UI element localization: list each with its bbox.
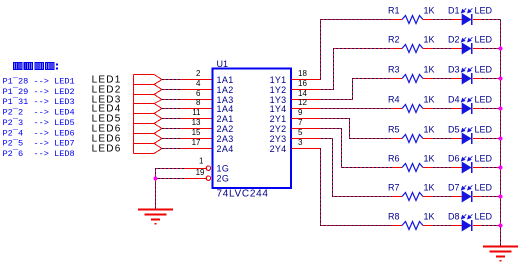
- LED D1: [448, 6, 493, 26]
- wire D3 cathode to bus: [482, 78, 501, 80]
- svg-text:1G: 1G: [217, 164, 230, 174]
- svg-text:U1: U1: [217, 59, 229, 69]
- svg-text:1K: 1K: [424, 212, 435, 222]
- wire port6 to U1: [162, 128, 182, 130]
- svg-text:D4: D4: [448, 95, 460, 105]
- resistor R6 1K: [388, 154, 435, 172]
- wire port8 to U1: [162, 148, 182, 150]
- svg-text:P2¯2 --> LED4: P2¯2 --> LED4: [3, 107, 75, 118]
- wire R5 to D5: [433, 138, 452, 140]
- refdes U1: [217, 59, 229, 69]
- svg-text:LED: LED: [475, 95, 493, 105]
- note title (CJK glyph blobs): [14, 62, 55, 69]
- net labels LED1..LED8: [92, 75, 122, 155]
- svg-text:1K: 1K: [424, 35, 435, 45]
- wire U1 1Y2 to R2: [321, 49, 392, 90]
- pin number 19: [196, 168, 205, 177]
- pin number 1: [199, 157, 204, 166]
- svg-text:1K: 1K: [424, 65, 435, 75]
- wire 1G to ground node: [156, 169, 185, 179]
- svg-text:D5: D5: [448, 125, 460, 135]
- U1 left pins 2,4,6,8,11,13,15,17: [182, 80, 213, 149]
- svg-text:1Y4: 1Y4: [270, 104, 287, 114]
- svg-text:D6: D6: [448, 154, 460, 164]
- svg-text:R2: R2: [388, 35, 400, 45]
- svg-text:18: 18: [298, 69, 307, 78]
- svg-text:1: 1: [199, 157, 204, 166]
- ground (U1 enables): [138, 210, 173, 224]
- svg-text:R5: R5: [388, 125, 400, 135]
- svg-text:P1¯31 --> LED3: P1¯31 --> LED3: [3, 96, 75, 107]
- wire R1 to D1: [433, 19, 452, 21]
- svg-text:2A1: 2A1: [217, 114, 234, 124]
- wire down to ground: [155, 179, 157, 210]
- wire D8 cathode to bus: [482, 225, 501, 227]
- svg-text:16: 16: [298, 79, 307, 88]
- LED D3: [448, 65, 493, 85]
- U1 pin 19 (2G) stub with bubble: [184, 176, 211, 180]
- U1 pin 1 (1G) stub with bubble: [184, 166, 211, 170]
- svg-text:LED: LED: [475, 125, 493, 135]
- wire D6 cathode to bus: [482, 167, 501, 169]
- wire port3 to U1: [162, 99, 182, 101]
- svg-text:1A1: 1A1: [217, 75, 234, 85]
- svg-text:7: 7: [298, 118, 303, 127]
- svg-text:R6: R6: [388, 154, 400, 164]
- svg-text:D2: D2: [448, 35, 460, 45]
- svg-text:1K: 1K: [424, 6, 435, 16]
- svg-text:1K: 1K: [424, 95, 435, 105]
- svg-text:15: 15: [192, 128, 201, 137]
- svg-text:LED: LED: [475, 212, 493, 222]
- svg-text:1A2: 1A2: [217, 85, 234, 95]
- svg-text:R8: R8: [388, 212, 400, 222]
- svg-text:P2¯3 --> LED5: P2¯3 --> LED5: [3, 117, 75, 128]
- svg-text:2A3: 2A3: [217, 134, 234, 144]
- svg-text:R3: R3: [388, 65, 400, 75]
- LED D2: [448, 35, 493, 55]
- wire R3 to D3: [433, 78, 452, 80]
- svg-text:5: 5: [298, 128, 303, 137]
- wire port4 to U1: [162, 108, 182, 110]
- svg-text:1K: 1K: [424, 154, 435, 164]
- svg-text:19: 19: [196, 168, 205, 177]
- wire port5 to U1: [162, 118, 182, 120]
- wire R4 to D4: [433, 108, 452, 110]
- svg-text:3: 3: [298, 138, 303, 147]
- resistor R3 1K: [388, 65, 435, 83]
- svg-text:R7: R7: [388, 183, 400, 193]
- wire U1 2Y3 to R7: [321, 139, 392, 197]
- svg-text:14: 14: [298, 89, 307, 98]
- wire port7 to U1: [162, 138, 182, 140]
- LED D7: [448, 183, 493, 203]
- svg-text:LED: LED: [475, 154, 493, 164]
- resistor R4 1K: [388, 95, 435, 113]
- svg-text:11: 11: [192, 108, 201, 117]
- svg-text:2: 2: [196, 69, 201, 78]
- resistor R8 1K: [388, 212, 435, 230]
- LED D4: [448, 95, 493, 115]
- svg-text:D1: D1: [448, 6, 460, 16]
- svg-text:8: 8: [196, 98, 201, 107]
- svg-text:LED6: LED6: [92, 144, 122, 155]
- wire R6 to D6: [433, 167, 452, 169]
- svg-text:P1¯28 --> LED1: P1¯28 --> LED1: [3, 76, 75, 87]
- wire R8 to D8: [433, 225, 452, 227]
- svg-text:R4: R4: [388, 95, 400, 105]
- wire 2G to ground node: [156, 178, 185, 180]
- svg-text:1Y2: 1Y2: [270, 85, 287, 95]
- svg-text:LED: LED: [475, 35, 493, 45]
- svg-text:4: 4: [196, 79, 201, 88]
- wire LED return bus: [500, 20, 502, 247]
- bus junctions: [498, 46, 502, 227]
- svg-text:R1: R1: [388, 6, 400, 16]
- svg-text:P2¯6 --> LED8: P2¯6 --> LED8: [3, 148, 75, 159]
- resistor R2 1K: [388, 35, 435, 53]
- wire port2 to U1: [162, 89, 182, 91]
- svg-text:P2¯5 --> LED7: P2¯5 --> LED7: [3, 138, 75, 149]
- U1 right pin numbers: [298, 69, 307, 147]
- svg-text:1K: 1K: [424, 125, 435, 135]
- svg-text:D8: D8: [448, 212, 460, 222]
- LED D5: [448, 125, 493, 145]
- svg-text:17: 17: [192, 138, 201, 147]
- note list P1_28..P2_6: [3, 76, 75, 159]
- part value 74LVC244: [217, 189, 269, 200]
- resistor R5 1K: [388, 125, 435, 143]
- wire U1 2Y4 to R8: [321, 149, 393, 226]
- U1 pin names: [217, 75, 287, 184]
- ground (LED return): [483, 247, 518, 261]
- wire R7 to D7: [433, 196, 452, 198]
- svg-text:D7: D7: [448, 183, 460, 193]
- svg-text:1Y1: 1Y1: [270, 75, 287, 85]
- wire D7 cathode to bus: [482, 196, 501, 198]
- svg-text:1K: 1K: [424, 183, 435, 193]
- svg-text:1A4: 1A4: [217, 104, 234, 114]
- wire D5 cathode to bus: [482, 138, 501, 140]
- svg-text:13: 13: [192, 118, 201, 127]
- wire port1 to U1: [162, 79, 182, 81]
- wire U1 2Y2 to R6: [321, 129, 392, 168]
- wire U1 1Y4 to R4: [321, 108, 392, 110]
- svg-text:2Y1: 2Y1: [270, 114, 287, 124]
- U1 left pin numbers: [192, 69, 201, 147]
- connector port array (8 sheet entries): [134, 75, 163, 154]
- wire U1 1Y1 to R1: [321, 20, 393, 80]
- svg-text:P1¯29 --> LED2: P1¯29 --> LED2: [3, 86, 75, 97]
- svg-text:12: 12: [298, 98, 307, 107]
- svg-text:LED: LED: [475, 183, 493, 193]
- svg-text:P2¯4 --> LED6: P2¯4 --> LED6: [3, 127, 75, 138]
- resistor R7 1K: [388, 183, 435, 201]
- svg-text:74LVC244: 74LVC244: [217, 189, 269, 200]
- resistor R1 1K: [388, 6, 435, 24]
- wire D4 cathode to bus: [482, 108, 501, 110]
- svg-text:D3: D3: [448, 65, 460, 75]
- svg-text:2A2: 2A2: [217, 124, 234, 134]
- wire D1 cathode to bus: [482, 19, 501, 21]
- wire D2 cathode to bus: [482, 48, 501, 50]
- svg-text:9: 9: [298, 108, 303, 117]
- wire U1 2Y1 to R5: [321, 119, 392, 139]
- IC U1 74LVC244 body: [213, 69, 292, 189]
- svg-text:LED: LED: [475, 65, 493, 75]
- U1 right pins 18,16,14,12,9,7,5,3: [291, 80, 321, 149]
- wire R2 to D2: [433, 48, 452, 50]
- svg-text:2A4: 2A4: [217, 144, 234, 154]
- junction at 2G node: [153, 176, 157, 180]
- svg-text:2Y2: 2Y2: [270, 124, 287, 134]
- LED D6: [448, 154, 493, 174]
- wire U1 1Y3 to R3: [321, 79, 392, 100]
- svg-text:2G: 2G: [217, 174, 230, 184]
- svg-text:LED: LED: [475, 6, 493, 16]
- svg-text:6: 6: [196, 89, 201, 98]
- svg-text:2Y4: 2Y4: [270, 144, 287, 154]
- LED D8: [448, 212, 493, 232]
- svg-text:2Y3: 2Y3: [270, 134, 287, 144]
